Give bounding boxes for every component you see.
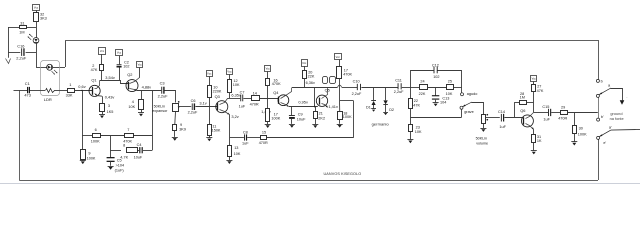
svg-text:C12: C12	[432, 63, 439, 67]
svg-text:germanio: germanio	[372, 121, 389, 126]
svg-text:>104: >104	[116, 163, 125, 167]
svg-text:Vcc: Vcc	[336, 55, 341, 59]
svg-text:Vcc: Vcc	[302, 61, 307, 65]
svg-text:100K: 100K	[87, 157, 96, 161]
svg-text:6,36v: 6,36v	[306, 81, 315, 85]
svg-text:1K: 1K	[537, 139, 542, 143]
svg-text:1M: 1M	[520, 96, 525, 100]
svg-text:Vcc: Vcc	[227, 69, 232, 73]
svg-text:1uF: 1uF	[543, 117, 550, 121]
svg-text:Q3: Q3	[215, 94, 220, 99]
svg-text:1uF: 1uF	[242, 142, 249, 146]
svg-text:Vcc: Vcc	[100, 49, 105, 53]
svg-text:470R: 470R	[250, 102, 259, 106]
svg-text:e': e'	[603, 141, 606, 145]
svg-text:1K5: 1K5	[107, 110, 114, 114]
svg-text:21: 21	[319, 112, 323, 116]
svg-text:2,2uF: 2,2uF	[188, 110, 198, 114]
svg-text:1uF: 1uF	[239, 104, 246, 108]
svg-text:6: 6	[95, 128, 97, 132]
svg-text:14: 14	[253, 92, 257, 96]
svg-text:Vcc: Vcc	[117, 51, 122, 55]
svg-text:25: 25	[448, 80, 452, 84]
svg-text:C8: C8	[243, 130, 248, 134]
svg-text:47K: 47K	[91, 68, 98, 72]
svg-text:4: 4	[132, 100, 134, 104]
svg-text:3K9: 3K9	[179, 128, 186, 132]
svg-text:3,2v: 3,2v	[231, 114, 238, 119]
svg-text:100K: 100K	[578, 132, 587, 136]
svg-text:31: 31	[20, 21, 24, 25]
svg-text:10K: 10K	[233, 83, 240, 87]
svg-text:C10: C10	[353, 79, 360, 83]
svg-text:C15: C15	[542, 105, 549, 109]
svg-text:1: 1	[69, 82, 71, 87]
svg-text:(1uF): (1uF)	[115, 168, 125, 172]
svg-text:100K: 100K	[271, 116, 280, 120]
svg-text:2,2uF: 2,2uF	[352, 92, 362, 96]
svg-text:29: 29	[561, 106, 565, 110]
svg-text:Q2: Q2	[127, 72, 132, 77]
svg-text:3,1v: 3,1v	[199, 100, 206, 105]
svg-text:22K: 22K	[419, 92, 426, 96]
svg-text:agudo: agudo	[467, 92, 478, 96]
svg-text:C11: C11	[395, 79, 402, 83]
svg-text:100K: 100K	[91, 140, 100, 144]
svg-text:C9: C9	[298, 112, 303, 116]
svg-text:150K: 150K	[212, 128, 221, 132]
svg-text:10K: 10K	[415, 130, 422, 134]
svg-text:50KLin: 50KLin	[476, 136, 487, 140]
svg-text:10uF: 10uF	[134, 156, 143, 160]
svg-text:1M: 1M	[19, 31, 24, 35]
svg-text:15: 15	[262, 130, 266, 134]
svg-text:473: 473	[24, 92, 31, 97]
svg-text:24: 24	[420, 80, 424, 84]
svg-text:2,2uF: 2,2uF	[16, 55, 27, 60]
svg-text:Q6: Q6	[520, 108, 525, 113]
svg-text:104: 104	[440, 100, 446, 104]
svg-text:C5: C5	[117, 158, 122, 162]
svg-text:0,95v: 0,95v	[298, 100, 308, 105]
svg-text:1,41v: 1,41v	[328, 104, 338, 109]
svg-text:2K2: 2K2	[318, 116, 325, 120]
svg-text:C16: C16	[17, 44, 24, 49]
svg-text:b: b	[601, 79, 603, 83]
svg-text:9: 9	[88, 151, 90, 155]
svg-text:D1: D1	[366, 106, 371, 110]
svg-text:47K: 47K	[537, 89, 544, 93]
svg-text:Q1: Q1	[91, 78, 96, 83]
svg-text:Vcc: Vcc	[34, 5, 39, 9]
svg-text:2,2uF: 2,2uF	[394, 90, 404, 94]
svg-text:C14: C14	[498, 110, 505, 114]
svg-text:0,43v: 0,43v	[105, 94, 115, 99]
svg-text:C1: C1	[25, 81, 30, 86]
svg-text:10K: 10K	[234, 152, 241, 156]
svg-text:C3: C3	[160, 81, 165, 86]
svg-text:8: 8	[123, 144, 125, 148]
svg-text:7: 7	[127, 128, 129, 132]
svg-text:100K: 100K	[343, 115, 352, 119]
svg-text:22K: 22K	[308, 74, 315, 78]
svg-text:3,54v: 3,54v	[105, 75, 115, 80]
svg-text:Vcc: Vcc	[532, 76, 537, 80]
svg-text:50KLin: 50KLin	[154, 104, 165, 108]
svg-text:a': a'	[609, 126, 612, 130]
svg-text:grave: grave	[464, 110, 474, 114]
svg-text:102: 102	[123, 64, 129, 68]
svg-text:30: 30	[579, 126, 583, 130]
svg-text:2,2uF: 2,2uF	[158, 94, 169, 99]
svg-text:3K3: 3K3	[40, 17, 47, 21]
svg-text:13: 13	[234, 146, 238, 150]
svg-text:C4: C4	[137, 143, 142, 147]
svg-text:LDR: LDR	[44, 97, 52, 102]
svg-text:10uF: 10uF	[297, 117, 306, 121]
svg-text:0,6v: 0,6v	[78, 84, 85, 89]
svg-text:Q5: Q5	[325, 87, 330, 92]
svg-text:C7: C7	[240, 91, 245, 95]
svg-text:volume: volume	[476, 141, 488, 145]
svg-text:UANVOS KISEGOLO: UANVOS KISEGOLO	[324, 172, 362, 176]
svg-text:33K: 33K	[66, 93, 73, 98]
svg-text:4,88v: 4,88v	[142, 85, 152, 90]
svg-text:Vcc: Vcc	[138, 63, 143, 67]
svg-text:9: 9	[180, 123, 182, 127]
svg-text:expansor: expansor	[152, 109, 168, 113]
svg-text:Vcc: Vcc	[207, 71, 212, 75]
svg-text:10K: 10K	[128, 105, 135, 109]
svg-text:470R: 470R	[259, 141, 268, 145]
svg-text:22: 22	[414, 99, 418, 103]
svg-text:23: 23	[416, 125, 420, 129]
svg-text:47K: 47K	[413, 103, 420, 107]
svg-text:na fonte: na fonte	[610, 116, 624, 121]
svg-text:-: -	[626, 96, 627, 100]
svg-text:470K: 470K	[272, 82, 281, 86]
svg-text:C6: C6	[191, 99, 196, 103]
svg-text:Q4: Q4	[273, 90, 279, 95]
svg-text:1uF: 1uF	[499, 125, 506, 129]
svg-text:470R: 470R	[558, 116, 567, 120]
svg-text:D2: D2	[389, 108, 394, 112]
svg-text:b': b'	[601, 115, 604, 119]
svg-text:102: 102	[433, 75, 439, 79]
svg-text:Vcc: Vcc	[266, 66, 271, 70]
svg-text:3: 3	[108, 104, 110, 108]
svg-text:470K: 470K	[343, 73, 352, 77]
